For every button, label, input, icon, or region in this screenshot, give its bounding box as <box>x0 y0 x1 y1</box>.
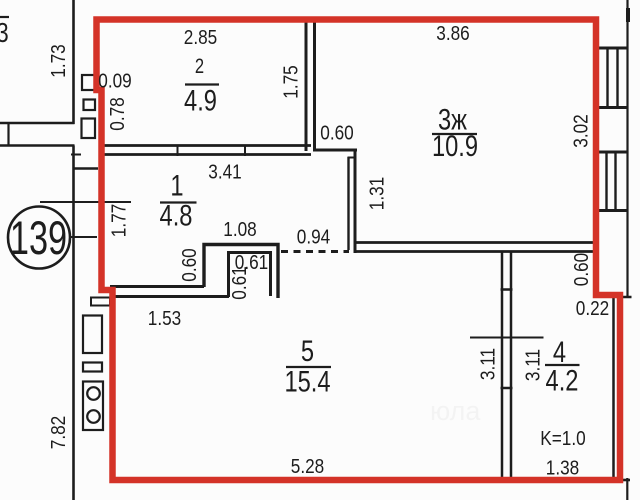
node: stove burner 1 <box>87 387 100 400</box>
svg-text:юла: юла <box>430 396 481 426</box>
wire: room3 bottom wall lower line <box>355 250 594 253</box>
wire: building outer edge right <box>626 0 628 297</box>
svg-text:3: 3 <box>0 18 9 49</box>
svg-text:1.08: 1.08 <box>223 218 256 241</box>
window W2 pane line b <box>614 152 616 211</box>
svg-text:1.73: 1.73 <box>47 44 70 77</box>
wire: room2/room3 partition right line <box>313 21 316 151</box>
node: wall joint tick b <box>244 145 246 156</box>
wire: room4 inner wall edge <box>612 298 615 478</box>
svg-text:K=1.0: K=1.0 <box>540 427 585 450</box>
wire: dimension tick 1.77 top <box>40 201 131 203</box>
svg-text:1: 1 <box>170 169 183 202</box>
node: sill box below jog <box>91 298 110 306</box>
node: apartment number circle 139 <box>8 207 70 269</box>
svg-text:0.61: 0.61 <box>228 266 251 299</box>
node: outer edge end tick <box>622 296 632 299</box>
window W1 top rail <box>599 47 628 50</box>
wire: hall/room5 wall lower line <box>110 295 229 298</box>
node: outer edge thick stub top <box>626 8 630 22</box>
wire: room2 bottom wall upper line <box>103 144 311 147</box>
window W2 bottom rail <box>599 209 628 212</box>
label: room 1 bar <box>160 201 197 203</box>
node: appliance tall box <box>83 316 102 354</box>
node: riser box 1 <box>82 75 97 90</box>
node: inner wall top connector <box>348 157 356 159</box>
svg-text:0.09: 0.09 <box>98 69 131 92</box>
svg-text:2: 2 <box>195 55 204 78</box>
wire: neighbour unit wall vertical left top <box>72 0 75 124</box>
node: vent duct outer <box>204 245 278 299</box>
svg-text:0.94: 0.94 <box>297 225 330 248</box>
svg-text:10.9: 10.9 <box>432 129 478 162</box>
wire: neighbour wall horizontal lower <box>0 144 75 147</box>
label: room 5 bar <box>286 366 331 368</box>
svg-text:1.31: 1.31 <box>365 177 388 210</box>
window W1 pane line a <box>606 48 608 108</box>
svg-text:0.60: 0.60 <box>178 248 201 281</box>
node: stove box <box>83 382 103 431</box>
svg-text:4.9: 4.9 <box>184 84 217 117</box>
svg-text:0.78: 0.78 <box>106 97 129 130</box>
svg-text:1.77: 1.77 <box>107 204 130 237</box>
svg-text:4.2: 4.2 <box>546 364 579 397</box>
wire: leader from circle 139 to boundary <box>69 236 97 238</box>
svg-text:15.4: 15.4 <box>284 365 330 398</box>
svg-text:5: 5 <box>301 334 314 367</box>
wire: room2/room3 partition left line <box>305 21 308 151</box>
svg-text:2.85: 2.85 <box>184 26 217 49</box>
node: watermark ghost <box>430 396 481 426</box>
svg-text:4.8: 4.8 <box>160 199 193 232</box>
wire: hall/room5 wall upper line <box>110 285 204 288</box>
label: room 2 bar <box>185 83 219 85</box>
node: riser box 3 <box>82 119 96 139</box>
svg-text:3.86: 3.86 <box>436 22 469 45</box>
wire: dashed opening 0.94 <box>281 250 349 253</box>
svg-text:1.75: 1.75 <box>279 65 302 98</box>
wire: stairwell wall vertical full height <box>72 146 75 500</box>
wire: hall/room3 wall vertical inner <box>347 157 349 250</box>
svg-text:139: 139 <box>10 212 67 265</box>
svg-text:3.02: 3.02 <box>569 114 592 147</box>
svg-text:0.60: 0.60 <box>570 253 593 286</box>
wire: building outer edge below corner <box>626 478 628 500</box>
node: vent duct inner <box>229 253 271 298</box>
wire: red apartment boundary <box>97 20 621 481</box>
svg-text:7.82: 7.82 <box>47 416 70 449</box>
wire: entry lintel wall to red boundary <box>73 167 98 170</box>
node: glazed section bottom cap <box>501 387 513 390</box>
node: glazed section top cap <box>501 288 513 291</box>
window W2 top rail <box>599 151 628 154</box>
wire: room3 bottom wall upper line <box>355 241 594 244</box>
label: room 4 bar <box>545 364 580 366</box>
node: riser box 2 <box>84 100 96 111</box>
svg-text:3.41: 3.41 <box>208 160 241 183</box>
wire: small tick left of entry <box>71 154 81 156</box>
svg-text:3.11: 3.11 <box>521 349 544 381</box>
node: wall joint tick a <box>177 145 179 156</box>
wire: hall/room3 wall vertical outer <box>354 149 357 254</box>
node: neighbour room label fragment top-left <box>0 16 9 18</box>
svg-text:5.28: 5.28 <box>291 455 324 478</box>
node: stove burner 2 <box>87 410 100 423</box>
window W1 pane line b <box>616 48 618 108</box>
svg-text:1.53: 1.53 <box>148 307 181 330</box>
wire: neighbour wall horizontal upper <box>0 122 75 125</box>
wire: neighbour niche tick <box>7 122 9 146</box>
wire: dimension tick 3.11 <box>470 337 544 339</box>
window W1 bottom rail <box>599 106 628 109</box>
wire: room2 bottom wall lower line <box>103 153 311 156</box>
wire: room5/room4 partition right line <box>510 252 513 479</box>
node: appliance small box <box>83 363 102 372</box>
wire: hall/room3 wall horizontal stub <box>313 149 357 152</box>
svg-text:0.22: 0.22 <box>576 297 609 320</box>
svg-text:1.38: 1.38 <box>546 456 579 479</box>
window W2 pane line a <box>605 152 607 211</box>
node: corner junction tick <box>623 479 631 482</box>
label: room 3 bar <box>432 133 477 135</box>
svg-text:3.11: 3.11 <box>476 348 499 380</box>
svg-text:0.60: 0.60 <box>320 121 353 144</box>
wire: room5/room4 partition left line <box>501 252 504 479</box>
